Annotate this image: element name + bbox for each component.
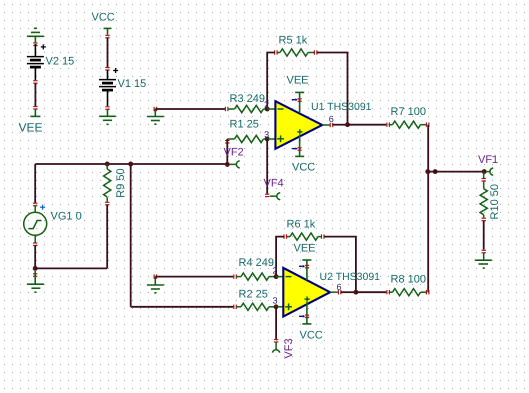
ground below VG1 (27, 271, 44, 292)
node VG1 ground junction (33, 266, 38, 271)
svg-text:6: 6 (329, 114, 334, 124)
wire ground to R4 (155, 276, 233, 278)
svg-text:V1 15: V1 15 (118, 78, 147, 90)
op-amp U2 (283, 268, 330, 317)
wire ground to R3 (155, 108, 225, 110)
test point VF4 (270, 193, 280, 200)
wire VCC terminal to V1 (107, 38, 109, 67)
svg-text:VF3: VF3 (283, 338, 295, 358)
pin ticks U1 VCC pin (298, 148, 302, 150)
svg-text:2: 2 (264, 99, 269, 109)
ground below V1 (99, 110, 116, 125)
wire node to U1 pin 3 (267, 138, 275, 140)
pin ticks R3 ground (154, 107, 157, 111)
svg-text:VCC: VCC (92, 12, 115, 24)
terminal VEE above U2 (302, 260, 311, 280)
ground at R3 input (147, 109, 164, 124)
wire node to U2 pin 2 (276, 276, 283, 278)
pin arrow U1 VEE (292, 98, 298, 101)
pin ticks V1 plus lead (105, 68, 109, 71)
node output bus left (425, 169, 430, 174)
pin ticks R10 top (482, 179, 486, 182)
node U2 inverting input (274, 274, 279, 279)
node VF2 junction (225, 162, 230, 167)
pin ticks U2 VCC pin (305, 315, 309, 317)
node U1 inverting input (265, 107, 270, 112)
test point VF1 (486, 168, 493, 175)
node branch to U2 (128, 162, 133, 167)
terminal VEE below V2 (30, 110, 40, 117)
svg-text:VF4: VF4 (264, 178, 284, 190)
resistor R7 (389, 121, 426, 128)
wire U1 output lead (322, 124, 329, 126)
wire VG1 top to signal bus (34, 164, 36, 203)
wire signal bus horizontal (35, 163, 227, 165)
resistor R10 (480, 172, 487, 218)
plus sign V1 (113, 68, 118, 73)
node U2 output junction (353, 290, 358, 295)
svg-text:R6 1k: R6 1k (287, 219, 316, 231)
terminal VEE above U1 (295, 92, 304, 113)
pin arrow U1 VCC (292, 147, 298, 150)
pin ticks VF4 (265, 194, 269, 196)
svg-text:VCC: VCC (300, 330, 323, 342)
wire U1 noninv node down to VF4 (266, 139, 268, 194)
wire node to R8 (356, 291, 386, 293)
ground below R10 (475, 253, 492, 268)
plus sign VG1 (40, 205, 45, 210)
U2 power plus marker (305, 297, 310, 302)
svg-text:VEE: VEE (19, 121, 43, 135)
op-amp U1 (275, 101, 322, 149)
svg-text:VF1: VF1 (478, 154, 498, 166)
pin ticks VF3 (274, 340, 278, 343)
svg-text:3: 3 (264, 129, 269, 139)
pin ticks U2 output (338, 290, 341, 294)
test point VF2 (230, 161, 240, 168)
wire U1 output to node (333, 124, 348, 126)
wire U2 noninv node down to VF3 (275, 307, 277, 339)
pin ticks R8 right (426, 290, 429, 294)
resistor R4 (236, 273, 276, 280)
pin ticks R8 left (387, 290, 390, 294)
U2 plus input marker (285, 303, 292, 310)
pin arrow U2 VCC (299, 315, 305, 318)
wire R1 left down to VF2 node (226, 139, 228, 164)
svg-text:2: 2 (272, 265, 277, 275)
wire branch down to U2 input (130, 164, 132, 307)
test point VF3 (272, 342, 279, 353)
wire VG1 bottom horizontal to R9 (35, 267, 107, 269)
pin ticks R9 bottom (105, 202, 109, 205)
wire node to R7 (348, 124, 387, 126)
ground at R4 input (147, 277, 164, 293)
resistor R5 (277, 49, 314, 56)
pin ticks ground VG1 (33, 274, 37, 277)
node output bus right (433, 169, 438, 174)
pin arrow U2 VEE (299, 265, 305, 268)
svg-text:R1 25: R1 25 (230, 119, 259, 131)
svg-text:VEE: VEE (294, 243, 316, 255)
svg-text:R9 50: R9 50 (115, 168, 127, 197)
pin ticks VEE terminal (33, 107, 37, 110)
wire R9 bottom to VG1 ground wire (106, 205, 108, 269)
wire U2 output to node (341, 291, 356, 293)
terminal VCC below U1 (295, 135, 304, 157)
svg-text:3: 3 (272, 296, 277, 306)
wire U2 output lead (330, 291, 338, 293)
battery V1 (99, 70, 116, 106)
resistor R6 (286, 233, 321, 240)
pin ticks V2 bottom lead (33, 81, 37, 84)
wire R6 feedback loop (276, 237, 356, 293)
U1 power plus marker (297, 129, 302, 134)
pin ticks R7 left (387, 123, 390, 127)
resistor R2 (236, 303, 276, 310)
wire to R2 (131, 306, 234, 308)
pin ticks VG1 bottom (33, 243, 37, 246)
wire VG1 bottom to ground node (34, 246, 36, 269)
svg-text:R7 100: R7 100 (391, 106, 426, 118)
pin ticks R1 left (225, 141, 229, 144)
power rail symbol VEE above V2 (27, 28, 44, 42)
pin ticks U2 VEE pin (305, 265, 309, 267)
voltage source VG1 (24, 206, 47, 243)
resistor R3 (228, 105, 267, 112)
pin ticks V1 bottom (105, 107, 109, 110)
battery V2 (27, 44, 44, 80)
pin ticks R3 left (225, 107, 228, 111)
svg-text:VG1 0: VG1 0 (51, 211, 82, 223)
resistor R8 (389, 289, 426, 296)
node U1 non-inverting input (265, 136, 270, 141)
pin ticks V2 top (33, 43, 37, 46)
svg-text:VCC: VCC (292, 162, 315, 174)
pin ticks R6 (284, 234, 324, 238)
svg-text:R8 100: R8 100 (391, 274, 426, 286)
resistor R1 (227, 135, 267, 142)
pin ticks R10 bottom (482, 218, 486, 221)
wire R5 feedback loop (267, 53, 347, 125)
node U1 output junction (345, 122, 350, 127)
svg-text:R10 50: R10 50 (489, 184, 501, 219)
svg-text:U2 THS3091: U2 THS3091 (320, 271, 381, 283)
wire node to U2 pin 3 (276, 306, 283, 308)
svg-text:R3 249: R3 249 (230, 93, 265, 105)
U1 plus input marker (277, 135, 284, 142)
resistor R9 (104, 164, 111, 202)
pin ticks R7 right (426, 123, 429, 127)
svg-text:VEE: VEE (287, 74, 309, 86)
terminal VCC below U2 (302, 302, 311, 324)
wire V2 to VEE terminal (34, 83, 36, 106)
svg-text:R5 1k: R5 1k (279, 35, 308, 47)
svg-text:VF2: VF2 (224, 147, 244, 159)
U1 minus input marker (278, 108, 284, 110)
pin ticks U1 VEE pin (298, 99, 302, 101)
pin ticks U1 output (330, 123, 333, 127)
node R9 top (105, 162, 110, 167)
pin ticks R10 ground (482, 250, 486, 253)
wire R10 to ground (483, 221, 485, 250)
node U2 non-inverting input (274, 304, 279, 309)
svg-text:R2 25: R2 25 (239, 289, 268, 301)
node VF1 junction (482, 169, 487, 174)
svg-text:U1 THS3091: U1 THS3091 (311, 101, 372, 113)
pin ticks R5 (275, 50, 317, 54)
pin ticks R4 ground (154, 274, 157, 278)
wire bus to VF1 (428, 171, 484, 173)
plus sign V2 (41, 44, 46, 49)
pin ticks R2 left (234, 305, 237, 309)
pin ticks VG1 top (33, 203, 37, 206)
U2 minus input marker (286, 276, 292, 278)
pin ticks V1 top terminal (105, 35, 109, 38)
svg-text:R4 249: R4 249 (239, 257, 274, 269)
wire node to U1 pin 2 (267, 108, 275, 110)
wire R7 down right bus (427, 125, 429, 293)
terminal VCC above V1 (104, 28, 112, 34)
pin ticks R4 left (234, 274, 237, 278)
svg-text:V2 15: V2 15 (46, 56, 75, 68)
